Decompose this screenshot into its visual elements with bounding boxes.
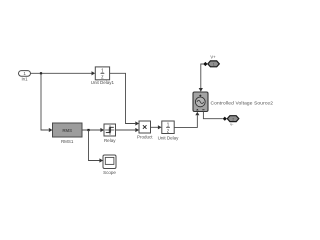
svg-text:Product: Product — [137, 135, 153, 140]
wire Controlled Voltage Source2 minus port to V- connector — [203, 112, 222, 119]
wire In1 to Unit Delay1 — [31, 72, 92, 74]
svg-text:2: 2 — [232, 117, 234, 121]
wire V+ connector to Controlled Voltage Source2 plus port — [201, 64, 204, 89]
wire branch down to Scope — [89, 130, 100, 161]
wire branch down to RMS1 — [41, 73, 49, 130]
svg-text:Scope: Scope — [103, 170, 116, 175]
svg-text:Unit Delay1: Unit Delay1 — [91, 80, 115, 85]
svg-text:Unit Delay: Unit Delay — [158, 135, 180, 140]
junction on RMS output — [87, 129, 89, 131]
svg-text:Controlled Voltage Source2: Controlled Voltage Source2 — [211, 100, 274, 106]
junction diamond at V- — [223, 117, 227, 121]
unit delay block Unit Delay — [162, 121, 174, 134]
svg-text:1: 1 — [213, 63, 215, 67]
svg-text:V+: V+ — [210, 55, 216, 60]
svg-text:RMS1: RMS1 — [61, 139, 74, 144]
wire Unit Delay to Controlled Voltage Source2 signal input — [174, 115, 197, 127]
wire RMS1 to Relay — [82, 129, 101, 131]
junction on In1 wire — [40, 72, 42, 74]
svg-text:v-: v- — [230, 122, 234, 126]
svg-text:RMS: RMS — [62, 128, 72, 133]
unit delay block Unit Delay1 — [95, 67, 109, 80]
port connector V- — [227, 116, 239, 122]
product block Product — [139, 121, 151, 133]
svg-text:Relay: Relay — [104, 138, 116, 143]
wire Relay to Product input 2 — [116, 129, 136, 131]
relay block Relay — [104, 124, 116, 136]
svg-text:In1: In1 — [21, 77, 28, 82]
wire Product to Unit Delay — [151, 126, 159, 128]
wire Unit Delay1 to Product input 1 — [110, 73, 136, 123]
RMS block RMS1 — [53, 123, 83, 137]
port connector V+ — [208, 61, 220, 67]
controlled voltage source block Controlled Voltage Source2 — [193, 92, 208, 112]
inport In1 — [19, 71, 31, 77]
junction diamond at V+ — [203, 62, 207, 66]
scope block Scope — [103, 155, 116, 169]
